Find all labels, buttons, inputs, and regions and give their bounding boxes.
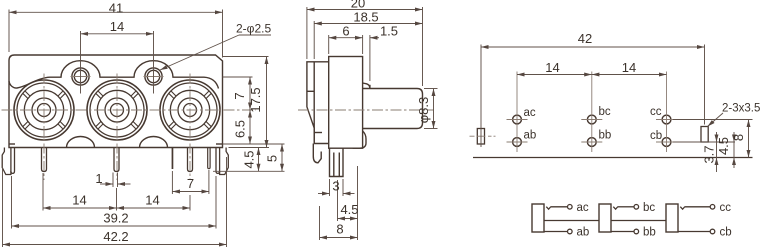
bottom step line right bbox=[216, 143, 223, 145]
front face contour with humps bbox=[9, 61, 219, 89]
svg-text:3.7: 3.7 bbox=[702, 145, 717, 163]
dim 42 footprint bbox=[481, 45, 705, 148]
svg-text:18.5: 18.5 bbox=[353, 10, 378, 25]
vertical centerline jack1 bbox=[43, 74, 45, 181]
svg-text:bb: bb bbox=[599, 130, 612, 142]
dim 39.2 bbox=[12, 176, 217, 229]
jack J2 bbox=[87, 80, 147, 140]
footprint slot left bbox=[477, 129, 484, 145]
dim 4.5 bbox=[338, 166, 358, 240]
side view dimension texts bbox=[332, 0, 431, 237]
svg-text:2-3x3.5: 2-3x3.5 bbox=[722, 103, 760, 115]
dim 17.5 right bbox=[266, 57, 268, 148]
svg-text:cb: cb bbox=[650, 130, 662, 142]
svg-text:2-φ2.5: 2-φ2.5 bbox=[236, 22, 271, 36]
svg-text:14: 14 bbox=[622, 60, 636, 75]
pin P1 bbox=[42, 148, 47, 172]
dim 6 bbox=[329, 35, 363, 54]
svg-text:bb: bb bbox=[643, 227, 656, 239]
side barrel bbox=[363, 89, 423, 129]
dim 20 bbox=[307, 7, 423, 86]
side barrel ring step bbox=[363, 83, 370, 89]
svg-text:6.5: 6.5 bbox=[233, 120, 248, 138]
left mounting tab bbox=[2, 148, 14, 175]
switch S1 body bbox=[532, 204, 544, 232]
svg-text:41: 41 bbox=[109, 1, 123, 16]
switch S2 body bbox=[599, 204, 611, 232]
switch S3 lever and contacts bbox=[678, 205, 715, 234]
svg-text:14: 14 bbox=[145, 193, 159, 208]
svg-text:8: 8 bbox=[336, 222, 343, 237]
svg-text:cc: cc bbox=[650, 106, 662, 118]
svg-text:14: 14 bbox=[110, 19, 124, 34]
dim phi8.3 bbox=[424, 89, 438, 129]
crosshair hole1 bbox=[71, 76, 91, 78]
dim 6.5 right bbox=[249, 110, 251, 144]
dim 7 right bbox=[249, 77, 251, 110]
dim 14 top bbox=[81, 31, 154, 94]
svg-text:ac: ac bbox=[524, 107, 536, 119]
dim 14 footprint right bbox=[592, 74, 667, 76]
dim 1 pin width bbox=[100, 173, 131, 188]
footprint holes ac ab bbox=[513, 115, 522, 146]
svg-text:6: 6 bbox=[342, 24, 349, 39]
footprint texts bbox=[524, 31, 760, 164]
pin P5 thin right of jack3 bbox=[208, 148, 210, 169]
svg-text:ab: ab bbox=[577, 227, 590, 239]
dim 3 bbox=[318, 179, 355, 196]
svg-text:1: 1 bbox=[95, 171, 102, 186]
svg-text:4.5: 4.5 bbox=[340, 202, 358, 217]
svg-text:4.5: 4.5 bbox=[242, 150, 257, 168]
dim 4.5 footprint bbox=[733, 132, 735, 168]
centerlines front view bbox=[2, 74, 257, 181]
svg-text:42.2: 42.2 bbox=[103, 229, 128, 244]
svg-text:cb: cb bbox=[720, 227, 732, 239]
svg-text:ab: ab bbox=[524, 130, 537, 142]
svg-text:39.2: 39.2 bbox=[103, 211, 128, 226]
footprint right extension lines bbox=[673, 120, 753, 143]
dim 14 bottom right bbox=[117, 195, 191, 211]
svg-text:ac: ac bbox=[577, 202, 589, 214]
svg-text:1.5: 1.5 bbox=[380, 24, 398, 39]
svg-text:cc: cc bbox=[720, 202, 732, 214]
svg-text:7: 7 bbox=[187, 176, 194, 191]
pin P3 center bbox=[188, 148, 193, 172]
switch S3 body bbox=[666, 204, 678, 232]
board edge line bbox=[473, 157, 753, 159]
side gusset under barrel bbox=[353, 131, 366, 148]
svg-text:bc: bc bbox=[643, 202, 655, 214]
schematic labels bbox=[577, 202, 732, 239]
dim 42.2 bbox=[3, 157, 227, 247]
svg-text:17.5: 17.5 bbox=[248, 87, 263, 112]
bottom bump left bbox=[67, 137, 95, 148]
footprint holes bc bb bbox=[587, 115, 596, 146]
svg-text:42: 42 bbox=[578, 31, 592, 46]
leader 2-3x3.5 bbox=[708, 113, 724, 127]
dim 7 bottom bbox=[172, 170, 209, 194]
svg-text:8: 8 bbox=[731, 134, 746, 141]
footprint hole crosshairs bbox=[470, 72, 678, 153]
leader 2-phi2.5 bbox=[160, 35, 271, 70]
footprint holes cc cb bbox=[662, 115, 671, 146]
right mounting tab bbox=[216, 148, 228, 175]
dim 8 bbox=[320, 206, 358, 240]
dim 3.7 footprint bbox=[716, 132, 718, 172]
pin P4 thin left of jack3 bbox=[172, 148, 174, 170]
bottom bump right bbox=[140, 137, 168, 148]
switch S2 lever and contacts bbox=[611, 205, 666, 234]
dim 41 bbox=[9, 10, 223, 58]
bottom step line left bbox=[9, 143, 15, 145]
switch S1 lever and contacts bbox=[544, 205, 599, 234]
vertical centerline jack2 bbox=[116, 74, 118, 181]
jack J3 bbox=[160, 80, 220, 140]
dim 14 bottom left bbox=[43, 173, 117, 211]
jack J1 bbox=[14, 80, 74, 140]
front view dimension texts bbox=[72, 1, 279, 245]
horizontal centerline bbox=[2, 109, 257, 111]
pin P2 bbox=[114, 148, 119, 172]
dim 5 right bbox=[281, 144, 283, 171]
svg-text:bc: bc bbox=[599, 106, 611, 118]
svg-text:14: 14 bbox=[72, 193, 86, 208]
right side extension lines bbox=[213, 57, 285, 172]
side pin stub bbox=[330, 148, 344, 176]
svg-text:5: 5 bbox=[265, 155, 280, 162]
front view body outline bbox=[9, 55, 223, 148]
svg-text:φ8.3: φ8.3 bbox=[416, 97, 431, 124]
svg-text:7: 7 bbox=[232, 92, 247, 99]
side view centerline bbox=[298, 109, 434, 111]
svg-text:14: 14 bbox=[545, 60, 559, 75]
side main block bbox=[329, 57, 363, 149]
side hook bbox=[313, 144, 321, 163]
dim 14 footprint left bbox=[517, 74, 592, 76]
crosshair hole2 bbox=[144, 76, 164, 78]
screw hole H1 bbox=[72, 68, 89, 85]
side flange plate bbox=[307, 62, 329, 144]
dim 8 footprint bbox=[748, 120, 750, 158]
dim 1.5 bbox=[370, 35, 379, 81]
screw hole H2 bbox=[145, 68, 162, 85]
footprint slot right bbox=[701, 127, 708, 143]
svg-text:3: 3 bbox=[332, 179, 339, 194]
vertical centerline jack3 bbox=[189, 74, 191, 181]
dim 4.5 right bbox=[258, 148, 260, 172]
svg-text:4.5: 4.5 bbox=[716, 137, 731, 155]
dim 18.5 bbox=[314, 21, 422, 59]
